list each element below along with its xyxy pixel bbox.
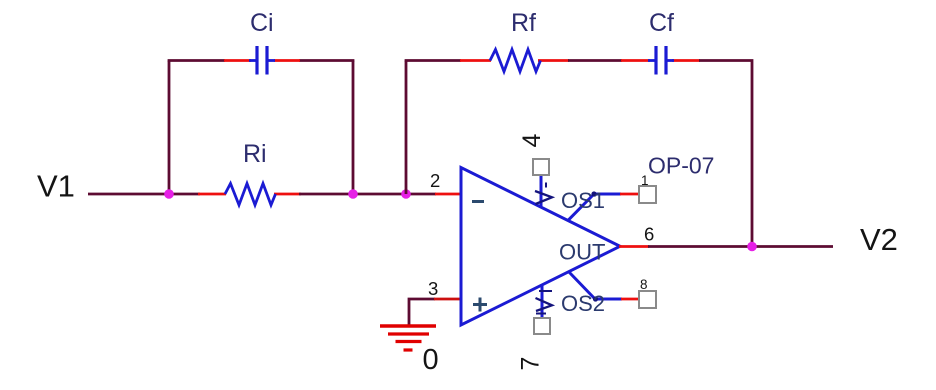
pin 1 OS1 lead (568, 191, 640, 220)
node B junction (Ri/Ci right) (348, 189, 358, 199)
pin 2 lead (435, 193, 462, 196)
ground (380, 326, 436, 350)
op-amp minus input symbol (472, 200, 484, 203)
svg-text:Rf: Rf (511, 9, 536, 37)
svg-text:OS2: OS2 (561, 291, 605, 316)
wire Ci top right (299, 59, 354, 62)
svg-text:Cf: Cf (649, 9, 674, 37)
pin 1 terminal square (639, 186, 656, 203)
svg-text:V2: V2 (860, 222, 898, 257)
svg-text:Ri: Ri (243, 140, 267, 168)
svg-text:6: 6 (644, 224, 654, 245)
pin 4 terminal (V+) (533, 159, 552, 207)
pin 8 terminal square (639, 291, 656, 308)
svg-text:OP-07: OP-07 (648, 153, 714, 179)
resistor R2 Rf (460, 50, 569, 72)
svg-text:OS1: OS1 (561, 188, 605, 213)
wire Ci top left (168, 59, 225, 62)
pin 3 lead (434, 298, 462, 301)
wire Rf to Cf (568, 59, 622, 62)
svg-text:Ci: Ci (250, 9, 274, 37)
pin 3 wire to ground (409, 299, 435, 326)
wire V1 input (88, 193, 200, 196)
capacitor C1 Ci (224, 46, 300, 75)
wire Ci branch left vertical (168, 61, 171, 195)
pin 8 OS2 lead (569, 272, 640, 302)
resistor R1 Ri (198, 184, 301, 206)
wire feedback left vertical (405, 61, 408, 195)
wire Cf to output (top right corner + vertical) (699, 61, 752, 247)
svg-text:2: 2 (430, 170, 440, 191)
svg-text:4: 4 (518, 133, 546, 147)
node A junction (V1/Ci/Ri) (164, 189, 174, 199)
node C junction (feedback branch) (401, 189, 411, 199)
svg-text:0: 0 (423, 344, 439, 376)
svg-text:8: 8 (640, 277, 648, 292)
svg-text:3: 3 (428, 278, 438, 299)
pin 7 terminal (V-) (534, 285, 552, 334)
op-amp plus input symbol (473, 298, 487, 312)
op-amp U1 OP-07 triangle (461, 168, 620, 326)
wire output (648, 245, 833, 248)
wire Ri to op-amp (299, 193, 436, 196)
svg-text:OUT: OUT (559, 240, 605, 265)
wire feedback top left (405, 59, 461, 62)
svg-text:V1: V1 (37, 169, 75, 204)
svg-text:7: 7 (517, 357, 545, 371)
node D junction (output/Cf) (747, 242, 757, 252)
capacitor C2 Cf (621, 46, 700, 75)
pin 6 output lead (619, 245, 649, 248)
wire Ci branch right vertical (352, 61, 355, 195)
